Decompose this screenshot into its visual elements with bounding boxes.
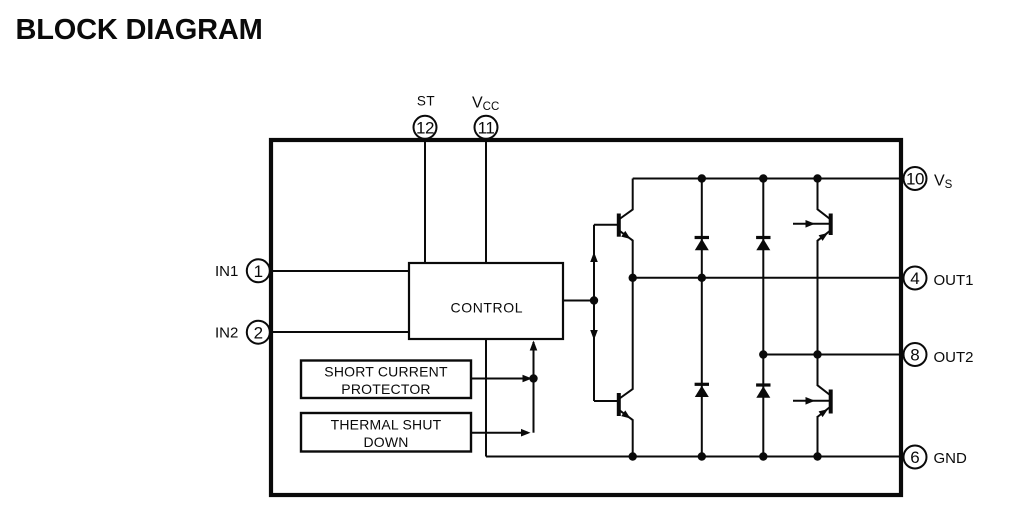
svg-text:THERMAL SHUT: THERMAL SHUT	[331, 417, 442, 433]
svg-text:6: 6	[910, 448, 919, 467]
pin 11 circle	[475, 116, 498, 139]
svg-text:BLOCK DIAGRAM: BLOCK DIAGRAM	[16, 14, 263, 46]
node OUT2-D2	[759, 350, 767, 358]
pin 1 circle	[247, 259, 270, 282]
wire GND rail	[486, 456, 903, 458]
pin 12 circle	[414, 116, 437, 139]
node GND-Q2	[629, 452, 637, 460]
pin 2 circle	[247, 321, 270, 344]
transistor Q4 (lower right, mirrored)	[818, 355, 831, 457]
svg-text:ST: ST	[417, 94, 435, 109]
pin 8 circle	[904, 343, 927, 366]
arrow down to Q2 base	[590, 330, 598, 340]
wire driver vertical line	[593, 225, 595, 401]
svg-text:IN2: IN2	[215, 325, 238, 342]
wire IN1 pin 1 to CONTROL	[266, 270, 409, 272]
wire OUT2 rail	[763, 354, 903, 356]
node VS-D1	[698, 174, 706, 182]
wire Q2 base	[594, 400, 618, 402]
arrow protection line up into CONTROL	[530, 341, 538, 351]
node VS-Q3	[813, 174, 821, 182]
svg-text:PROTECTOR: PROTECTOR	[341, 381, 430, 397]
node OUT1-D1	[698, 274, 706, 282]
diode D4 (OUT2 to GND)	[756, 355, 770, 457]
wire Q1 base	[594, 224, 618, 226]
svg-text:OUT1: OUT1	[934, 272, 974, 289]
arrow SHORT output right	[523, 375, 533, 383]
pin 10 circle	[904, 167, 927, 190]
svg-text:4: 4	[910, 269, 919, 288]
svg-text:SHORT CURRENT: SHORT CURRENT	[324, 364, 448, 380]
svg-text:1: 1	[254, 262, 263, 281]
svg-text:VS: VS	[934, 173, 953, 192]
node GND-D4	[759, 452, 767, 460]
wire SHORT CURRENT PROTECTOR output	[471, 378, 530, 380]
transistor Q3 (upper right, mirrored)	[818, 179, 831, 355]
node GND-D3	[698, 452, 706, 460]
svg-text:11: 11	[478, 118, 495, 137]
svg-text:8: 8	[910, 346, 919, 365]
svg-text:DOWN: DOWN	[363, 434, 408, 450]
svg-text:OUT2: OUT2	[934, 349, 974, 366]
svg-text:2: 2	[254, 324, 263, 343]
node VS-D2	[759, 174, 767, 182]
node driver junction	[590, 296, 598, 304]
diode D3 (OUT1 to GND)	[695, 278, 709, 457]
SHORT CURRENT PROTECTOR block	[301, 361, 471, 399]
node protection junction	[529, 374, 537, 382]
svg-text:CONTROL: CONTROL	[451, 300, 524, 316]
svg-text:10: 10	[906, 170, 924, 189]
svg-text:VCC: VCC	[472, 95, 499, 114]
svg-text:GND: GND	[934, 450, 968, 467]
arrow THERMAL output right	[521, 429, 531, 437]
IC outline box	[271, 140, 901, 495]
transistor Q2 (lower left NPN)	[619, 278, 633, 457]
wire CONTROL ground drop	[485, 339, 487, 457]
wire protection vertical line to CONTROL	[533, 342, 535, 433]
svg-text:12: 12	[416, 118, 434, 137]
diode D2 (VS to OUT2)	[756, 179, 770, 355]
pin 4 circle	[904, 267, 927, 290]
svg-text:IN1: IN1	[215, 263, 238, 280]
wire VS top rail	[633, 178, 903, 180]
wire OUT1 rail	[633, 277, 903, 279]
node OUT1-Q1	[629, 274, 637, 282]
diode D1 (VS to OUT1)	[695, 179, 709, 278]
wire CONTROL output to driver node	[563, 300, 594, 302]
node GND-Q4	[813, 452, 821, 460]
arrow up to Q1 base	[590, 252, 598, 262]
wire IN2 pin 2 to CONTROL	[266, 331, 409, 333]
wire THERMAL SHUT DOWN output	[471, 432, 528, 434]
THERMAL SHUT DOWN block	[301, 413, 471, 452]
transistor Q1 (upper left NPN)	[619, 179, 633, 278]
wire Q3 base stub with arrow	[793, 220, 829, 228]
wire Q4 base stub with arrow	[793, 397, 829, 405]
pin 6 circle	[904, 446, 927, 469]
wire ST pin 12 to CONTROL	[424, 139, 426, 263]
node OUT2-Q3	[813, 350, 821, 358]
wire VCC pin 11 to CONTROL	[485, 139, 487, 263]
CONTROL block	[409, 263, 563, 339]
